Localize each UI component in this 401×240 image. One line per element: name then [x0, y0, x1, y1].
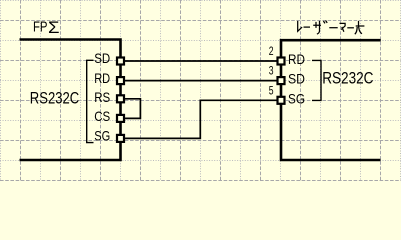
katakana long dash 2 — [329, 27, 337, 29]
svg-text:SD: SD — [94, 50, 110, 66]
bracket right labels — [312, 60, 321, 100]
svg-text:3: 3 — [269, 63, 274, 77]
pin SD right (3) — [278, 77, 285, 84]
pin RS left — [117, 95, 124, 102]
svg-text:RS232C: RS232C — [322, 70, 373, 88]
label laser marker (katakana drawn as strokes) — [298, 21, 365, 35]
wire SG(left) to SG(right) — [121, 100, 282, 138]
svg-text:CS: CS — [94, 108, 110, 124]
svg-text:Σ: Σ — [48, 18, 60, 37]
pin RD right (2) — [278, 58, 285, 65]
katakana long dash 1 — [304, 26, 311, 28]
svg-text:SD: SD — [288, 71, 305, 87]
wire RS-CS loopback — [121, 99, 141, 119]
svg-text:SG: SG — [288, 90, 305, 106]
katakana long dash 3 — [347, 27, 354, 29]
Laser marker block outline — [281, 40, 381, 160]
pin RD left — [117, 77, 124, 84]
pin SD left — [117, 58, 124, 65]
svg-text:RD: RD — [288, 51, 305, 67]
svg-text:2: 2 — [269, 44, 274, 58]
svg-text:RS232C: RS232C — [30, 90, 79, 108]
pin SG right (5) — [278, 97, 285, 104]
katakana MA — [340, 23, 346, 31]
wire SD(left) to RD(right) — [121, 60, 282, 62]
bracket left labels — [87, 60, 94, 142]
katakana KA — [355, 21, 365, 34]
dakuten — [323, 21, 327, 24]
FP-Sigma block outline — [20, 40, 121, 161]
katakana SA — [313, 21, 321, 34]
wire RD(left) to SD(right) — [121, 80, 282, 82]
pin SG left — [117, 135, 124, 142]
svg-text:RD: RD — [94, 70, 110, 86]
pin CS left — [117, 115, 124, 122]
katakana RE — [298, 21, 302, 31]
svg-text:SG: SG — [94, 128, 110, 144]
svg-text:FP: FP — [33, 19, 48, 36]
svg-text:5: 5 — [269, 84, 274, 98]
svg-text:RS: RS — [94, 89, 110, 105]
